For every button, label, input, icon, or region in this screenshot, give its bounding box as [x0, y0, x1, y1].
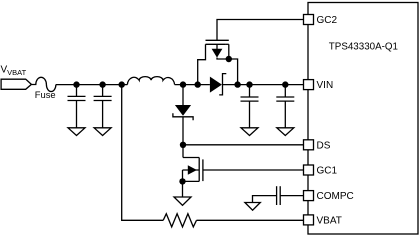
junction C3 top: [246, 81, 252, 87]
wire DS net: [183, 144, 304, 146]
svg-text:GC2: GC2: [317, 15, 338, 26]
pin VBAT: [304, 215, 314, 225]
wire VBAT branch: [122, 85, 164, 221]
capacitor C3: [249, 85, 251, 97]
schottky diode D1 (vertical): [175, 105, 191, 116]
junction Q1 body-source tie: [226, 56, 232, 62]
junction VBAT branch: [119, 81, 125, 87]
junction Q1 source: [234, 81, 240, 87]
ground (below C1): [68, 128, 85, 136]
ground (below C3): [241, 128, 258, 136]
wire diode cathode to VIN pin: [223, 84, 304, 86]
capacitor C5 (COMPC): [280, 195, 303, 197]
pin DS: [304, 140, 314, 150]
capacitor C1: [76, 85, 78, 97]
svg-text:VIN: VIN: [317, 80, 334, 91]
junction Q2 body-source tie: [179, 178, 185, 184]
svg-text:Fuse: Fuse: [35, 89, 56, 100]
ground (COMPC): [245, 203, 260, 211]
junction C2 top: [99, 81, 105, 87]
transistor Q1 (high-side bypass, gate GC2): [217, 20, 304, 41]
junction node DS: [180, 142, 186, 148]
pin GC1: [304, 165, 314, 175]
svg-text:GC1: GC1: [317, 166, 338, 177]
pin COMPC: [304, 191, 314, 201]
wire resistor to VBAT pin: [197, 219, 304, 221]
pin VIN: [304, 80, 314, 90]
inductor L1: [127, 77, 174, 85]
svg-text:COMPC: COMPC: [317, 191, 354, 202]
pin GC2: [304, 15, 314, 25]
junction SW node: [180, 81, 186, 87]
wire SW node to D1 anode: [182, 85, 184, 105]
junction C4 top: [282, 81, 288, 87]
svg-text:TPS43330A-Q1: TPS43330A-Q1: [329, 42, 398, 53]
capacitor C4: [284, 85, 286, 97]
IC U1 TPS43330A-Q1 box: [308, 3, 418, 235]
wire fuse to inductor: [56, 84, 128, 86]
resistor R1: [163, 214, 196, 227]
ground (below Q2): [174, 197, 191, 205]
connector V_VBAT: [1, 79, 31, 89]
junction C1 top: [73, 81, 79, 87]
svg-text:VVBAT: VVBAT: [1, 65, 27, 78]
capacitor C2: [102, 85, 104, 97]
schottky diode D2 (boost rectifier): [210, 77, 222, 93]
fuse: [31, 77, 56, 91]
svg-text:VBAT: VBAT: [317, 216, 342, 227]
transistor Q2 (boost switch, gate GC1): [183, 157, 199, 159]
ground (below C2): [94, 128, 111, 136]
wire inductor to diode anode: [175, 84, 210, 86]
ground (below C4): [277, 128, 294, 136]
svg-text:DS: DS: [317, 140, 331, 151]
junction Q1 drain: [195, 81, 201, 87]
